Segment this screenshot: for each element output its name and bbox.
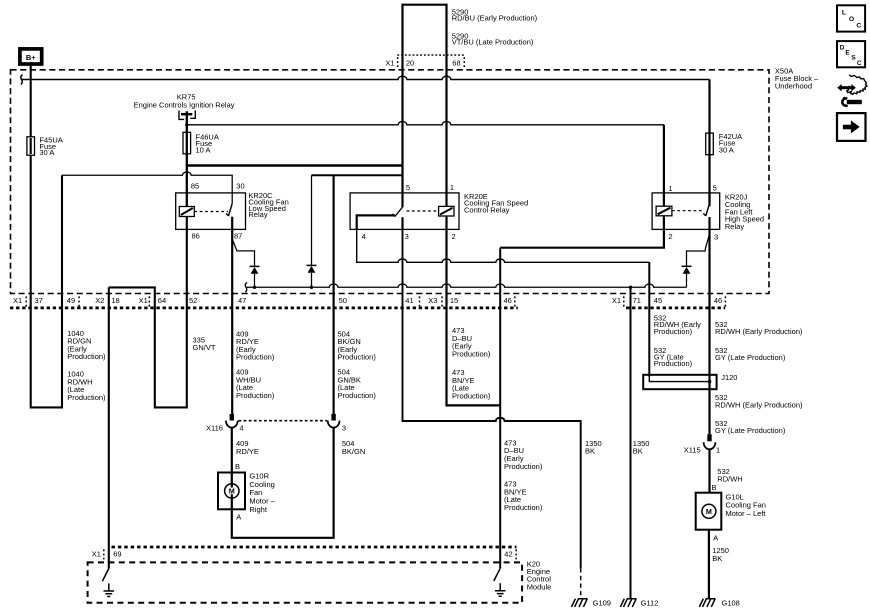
wire 5290 RD/BU from connector pin 20 down to KR20E pin 5 bbox=[401, 55, 403, 207]
wire KR75 output through fuse F46UA to KR20C pin 85 coil bbox=[186, 111, 188, 206]
svg-text:L: L bbox=[842, 9, 846, 16]
wire KR20J pin 3 through pin 46 and J120 to fan motor left bbox=[708, 229, 710, 434]
svg-text:15: 15 bbox=[450, 296, 458, 305]
wire 1350 BK dashed portion to G109 bbox=[580, 568, 582, 598]
svg-text:X1: X1 bbox=[139, 296, 148, 305]
connector X1 plug box (top, pins 20/68) bbox=[403, 5, 447, 55]
icon forward arrow box bbox=[837, 113, 866, 141]
wire pin 45 down to splice J120 bbox=[648, 262, 650, 376]
wire KR20E pin 5 bus diode branch bbox=[311, 175, 313, 287]
ground G112 bbox=[620, 599, 636, 607]
svg-text:68: 68 bbox=[452, 58, 460, 67]
wire bus pin 50 / diode branch to KR20E pin 5 bbox=[312, 174, 403, 176]
wire KR20C pin 86 coil ground out pin 52, loop to pin 64 (335 GN/VT) bbox=[109, 217, 187, 408]
connector band K20 dotted line bbox=[112, 546, 517, 549]
svg-text:RD/WH: RD/WH bbox=[717, 475, 742, 484]
connector band K20 separators bbox=[104, 549, 516, 559]
svg-text:1: 1 bbox=[668, 184, 672, 193]
svg-text:49: 49 bbox=[67, 296, 75, 305]
svg-text:Production): Production) bbox=[452, 391, 491, 400]
svg-text:Production): Production) bbox=[338, 353, 377, 362]
svg-text:45: 45 bbox=[654, 296, 662, 305]
svg-text:Underhood: Underhood bbox=[775, 82, 812, 91]
fuse F42UA 30A bbox=[706, 133, 714, 155]
svg-text:C: C bbox=[856, 22, 861, 29]
svg-text:RD/BU (Early Production): RD/BU (Early Production) bbox=[452, 14, 538, 23]
svg-text:X115: X115 bbox=[684, 446, 701, 455]
K20 internal driver pin 69 (switch to ground) bbox=[102, 569, 114, 597]
svg-text:Production): Production) bbox=[236, 391, 275, 400]
svg-text:M: M bbox=[229, 487, 235, 496]
svg-text:X116: X116 bbox=[206, 424, 223, 433]
svg-text:GN/VT: GN/VT bbox=[193, 343, 216, 352]
svg-text:Relay: Relay bbox=[725, 222, 744, 231]
wire diode branch from KR20C pin 87 bbox=[232, 239, 254, 287]
svg-text:D: D bbox=[840, 45, 845, 52]
svg-text:Right: Right bbox=[249, 505, 267, 514]
svg-text:X1: X1 bbox=[612, 296, 621, 305]
fuse block X50A dashed boundary bbox=[11, 70, 770, 294]
svg-text:2: 2 bbox=[452, 232, 456, 241]
svg-text:87: 87 bbox=[234, 231, 242, 240]
wire KR20E pin 2 coil out pin 15, loop to pin 46 (473 circuit) bbox=[447, 216, 501, 405]
connector X1 top band dotted line bbox=[397, 54, 465, 56]
svg-text:30 A: 30 A bbox=[39, 148, 54, 157]
svg-text:Production): Production) bbox=[67, 352, 106, 361]
ground G108 bbox=[699, 599, 715, 607]
connector band X1/X2/X3 dotted line (left) bbox=[10, 306, 518, 309]
svg-text:BK: BK bbox=[712, 554, 722, 563]
wire pin 71 down to ground G112 (1350 BK) bbox=[630, 287, 632, 598]
svg-text:5: 5 bbox=[406, 183, 410, 192]
icon LOC box bbox=[837, 5, 865, 31]
svg-text:X1: X1 bbox=[385, 58, 394, 67]
ground G109 bbox=[572, 599, 588, 607]
wire KR20C pin 87 output down through pin 47 to fan motor right bbox=[231, 217, 233, 414]
switch contact KR20E (pin 5 blade) bbox=[393, 207, 403, 217]
inline connector X116 dashed line bbox=[239, 420, 328, 422]
svg-text:3: 3 bbox=[405, 232, 409, 241]
svg-text:BK: BK bbox=[585, 447, 595, 456]
svg-text:3: 3 bbox=[342, 424, 346, 433]
svg-text:RD/YE: RD/YE bbox=[236, 447, 259, 456]
svg-text:46: 46 bbox=[504, 296, 512, 305]
svg-text:42: 42 bbox=[504, 550, 512, 559]
relay KR20C Cooling Fan Low Speed Relay box bbox=[176, 193, 246, 230]
svg-text:85: 85 bbox=[191, 182, 199, 191]
wire ignition bus from KR75 to KR20J pin 1, hops over 5290 wires bbox=[187, 122, 664, 125]
svg-text:4: 4 bbox=[240, 424, 244, 433]
svg-text:4: 4 bbox=[362, 232, 366, 241]
wire bus from B+ across top of fuse block to F42UA, hops over 5290 wires bbox=[22, 76, 710, 79]
wire KR20J pin 3 stub bbox=[708, 217, 710, 229]
svg-text:O: O bbox=[849, 16, 854, 23]
fuse F46UA 10A bbox=[183, 132, 191, 154]
svg-text:1: 1 bbox=[450, 183, 454, 192]
svg-text:Engine Controls Ignition Relay: Engine Controls Ignition Relay bbox=[134, 100, 235, 109]
wire diode common bus to pin 71, hops over crossing wires bbox=[247, 284, 687, 287]
dashed link coil to contact KR20C bbox=[194, 211, 228, 213]
svg-text:X1: X1 bbox=[92, 550, 101, 559]
coil KR20C bbox=[179, 207, 194, 217]
dashed link coil to contact KR20E bbox=[407, 210, 439, 212]
wire pin 46 / KR20J pin 2 down to K20 pin 42 (473 circuit) bbox=[499, 248, 501, 569]
svg-text:3: 3 bbox=[714, 232, 718, 241]
connector X116 terminal pin 3 (male+female) bbox=[328, 414, 340, 428]
coil KR20E bbox=[439, 206, 454, 216]
svg-text:X2: X2 bbox=[95, 296, 104, 305]
wire 532 RD/WH to motor G10L pin B bbox=[708, 449, 710, 493]
wire KR20E pin 4 to pin 45 (532 circuit), hops over crossing wires bbox=[357, 229, 650, 262]
svg-text:Control Relay: Control Relay bbox=[464, 206, 510, 215]
svg-text:BK/GN: BK/GN bbox=[342, 447, 365, 456]
connector band X1 dotted line (right) bbox=[626, 306, 725, 309]
module K20 Engine Control Module dashed box bbox=[88, 562, 522, 602]
switch contact KR20J (pin 5 blade) bbox=[703, 204, 709, 216]
svg-text:5: 5 bbox=[713, 183, 717, 192]
svg-text:RD/WH (Early Production): RD/WH (Early Production) bbox=[715, 400, 803, 409]
wire 5290 from connector pin 68 down to KR20E pin 1 coil bbox=[445, 55, 447, 206]
svg-text:30: 30 bbox=[236, 182, 244, 191]
svg-text:64: 64 bbox=[158, 296, 166, 305]
svg-text:B: B bbox=[235, 462, 240, 471]
svg-text:10 A: 10 A bbox=[196, 145, 211, 154]
connector X116 terminal pin 4 (male+female) bbox=[226, 414, 238, 428]
svg-text:Production): Production) bbox=[504, 462, 543, 471]
svg-text:1: 1 bbox=[716, 446, 720, 455]
wire KR20E pin 3 through pin 41 to ground G109 (1350 BK), hops over 473 wire bbox=[403, 229, 581, 568]
hook at left end of diode bus bbox=[245, 283, 247, 293]
svg-text:G108: G108 bbox=[722, 599, 740, 608]
svg-text:37: 37 bbox=[35, 296, 43, 305]
svg-text:GY (Late Production): GY (Late Production) bbox=[715, 353, 786, 362]
wire diode branch from KR20J pin 3 bbox=[687, 234, 710, 287]
dashed link coil to contact KR20J bbox=[672, 210, 704, 212]
svg-text:BK: BK bbox=[633, 447, 643, 456]
wire KR20J pin 1 coil drop bbox=[663, 125, 665, 206]
relay KR75 Engine Controls Ignition Relay (symbol) bbox=[179, 111, 195, 120]
diode (KR20J suppression) bbox=[682, 266, 692, 273]
svg-text:18: 18 bbox=[111, 296, 119, 305]
junction diode 2 bbox=[310, 286, 313, 289]
svg-text:50: 50 bbox=[339, 296, 347, 305]
svg-text:RD/WH (Early Production): RD/WH (Early Production) bbox=[715, 327, 803, 336]
icon swap/repair (double arrow, part outline, wrench) bbox=[837, 75, 867, 106]
svg-text:GY (Late Production): GY (Late Production) bbox=[715, 426, 786, 435]
wire X2 pin 18 down to K20 pin 69 (335 circuit) bbox=[108, 287, 110, 568]
svg-text:41: 41 bbox=[405, 296, 413, 305]
svg-text:86: 86 bbox=[192, 231, 200, 240]
svg-text:Production): Production) bbox=[338, 391, 377, 400]
svg-text:M: M bbox=[706, 507, 712, 516]
svg-text:Production): Production) bbox=[654, 327, 693, 336]
fan motor G10R Cooling Fan Motor Right bbox=[218, 473, 245, 510]
wire 409 to motor G10R pin B, and motor pin A loop back to wire 504 pin 50 bbox=[232, 428, 334, 538]
switch contact KR20C (pin 30 to 87) bbox=[226, 204, 232, 216]
svg-text:Relay: Relay bbox=[248, 210, 267, 219]
svg-text:69: 69 bbox=[113, 550, 121, 559]
connector band separators bbox=[26, 296, 725, 306]
svg-text:Production): Production) bbox=[504, 503, 543, 512]
svg-text:C: C bbox=[857, 60, 862, 67]
svg-text:71: 71 bbox=[633, 296, 641, 305]
fuse F45UA 30A bbox=[27, 137, 35, 155]
svg-text:B: B bbox=[712, 483, 717, 492]
fan motor G10L Cooling Fan Motor Left bbox=[696, 493, 722, 530]
svg-text:A: A bbox=[713, 534, 718, 543]
coil KR20J bbox=[656, 206, 672, 216]
wire B+ vertical feed through fuse F45UA down to pin 37, loop to pin 49 (1040 circuit) bbox=[31, 66, 62, 408]
hook at left end of B+ bus bbox=[21, 75, 23, 85]
diode (KR20E branch) bbox=[307, 265, 317, 272]
svg-text:VT/BU (Late Production): VT/BU (Late Production) bbox=[452, 38, 534, 47]
icon DESC box bbox=[837, 41, 865, 67]
splice J120 bbox=[643, 375, 716, 389]
node B+ battery feed terminal bbox=[20, 49, 42, 64]
svg-text:Production): Production) bbox=[452, 349, 491, 358]
relay KR20J Cooling Fan Left High Speed Relay box bbox=[652, 193, 720, 230]
svg-text:A: A bbox=[236, 512, 241, 521]
wire pin 50 from bus down to inline connector X116 pin 3 bbox=[333, 175, 335, 414]
diode (KR20C suppression) bbox=[250, 266, 260, 273]
wire from pin 49 to KR20C pin 30, hops over coil wire bbox=[62, 172, 232, 204]
svg-text:47: 47 bbox=[238, 296, 246, 305]
K20 internal driver pin 42 (switch to ground) bbox=[494, 568, 506, 596]
wire 1250 BK motor G10L pin A to ground G108 bbox=[708, 530, 710, 599]
svg-text:Module: Module bbox=[527, 582, 552, 591]
wire KR20J pin 2 coil to pin 46 wire bbox=[500, 216, 664, 248]
label X50A Fuse Block Underhood bbox=[775, 67, 819, 91]
svg-text:X1: X1 bbox=[13, 296, 22, 305]
junction pin 71 wire bbox=[629, 286, 632, 289]
wire KR20E pin 4 arm bbox=[357, 215, 395, 229]
svg-text:20: 20 bbox=[406, 58, 414, 67]
svg-text:Production): Production) bbox=[654, 359, 693, 368]
svg-text:G109: G109 bbox=[593, 599, 611, 608]
svg-text:46: 46 bbox=[714, 296, 722, 305]
svg-text:Production): Production) bbox=[67, 393, 106, 402]
connector X1 top band separators bbox=[398, 57, 465, 67]
wire bus from F46UA to KR20E pin 5 bbox=[187, 164, 403, 166]
junction diode 1 bbox=[253, 286, 256, 289]
svg-text:B+: B+ bbox=[26, 53, 36, 62]
junction KR75/bus bbox=[185, 123, 188, 126]
svg-text:30 A: 30 A bbox=[719, 145, 734, 154]
svg-text:G112: G112 bbox=[641, 599, 659, 608]
svg-text:S: S bbox=[851, 54, 856, 61]
svg-text:E: E bbox=[845, 49, 850, 56]
svg-text:X3: X3 bbox=[428, 296, 437, 305]
svg-text:2: 2 bbox=[668, 232, 672, 241]
relay KR20E Cooling Fan Speed Control Relay box bbox=[350, 193, 459, 230]
connector X115 terminal pin 1 (male+female) bbox=[704, 434, 716, 449]
svg-text:J120: J120 bbox=[721, 373, 737, 382]
wire KR20E pin 3 stub bbox=[401, 217, 403, 229]
wire KR20J pin 5 stub from F42UA bbox=[708, 193, 710, 204]
svg-text:Production): Production) bbox=[236, 353, 275, 362]
svg-text:52: 52 bbox=[189, 296, 197, 305]
svg-text:Motor – Left: Motor – Left bbox=[726, 509, 767, 518]
wire F42UA feed drop bbox=[708, 80, 710, 207]
